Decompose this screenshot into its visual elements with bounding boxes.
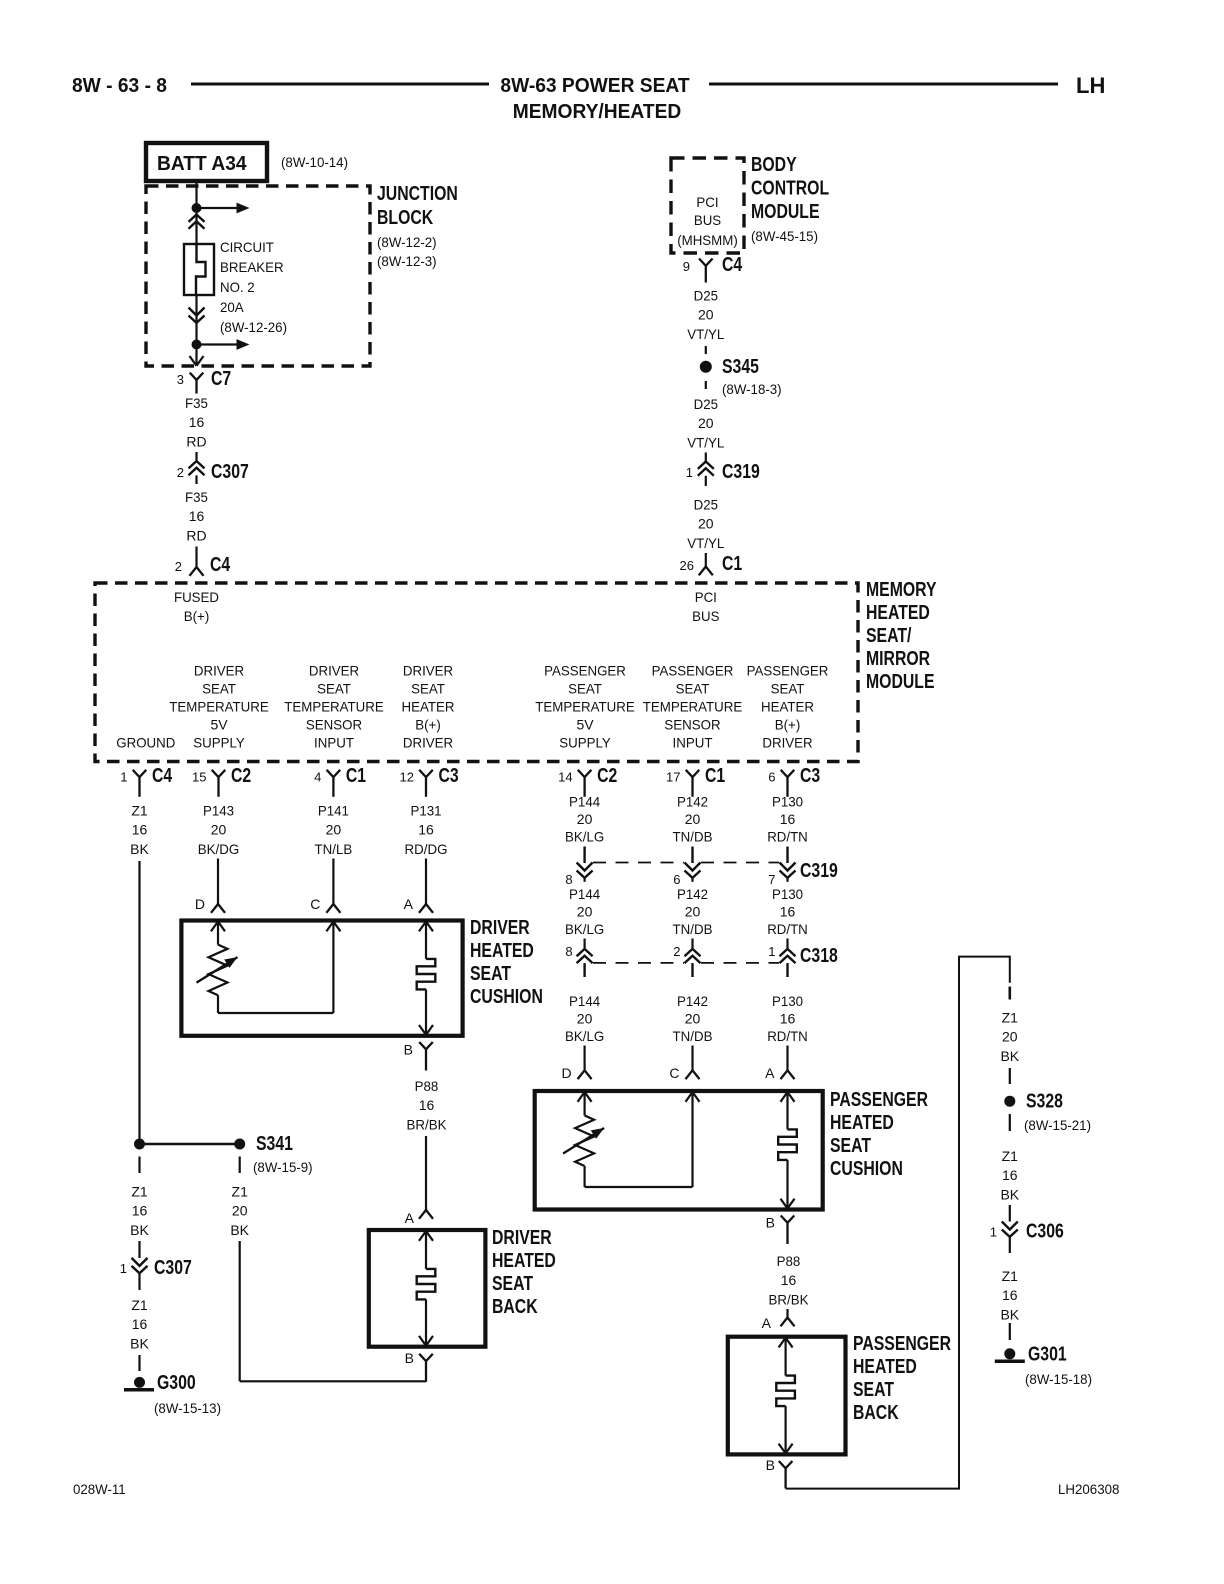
module pin DRIVER SEAT HEATER B(+) DRIVER label — [402, 663, 455, 751]
connector C319 pin 6 — [673, 847, 700, 888]
svg-text:C7: C7 — [211, 368, 231, 390]
svg-text:16: 16 — [132, 1203, 148, 1219]
svg-text:6: 6 — [768, 770, 775, 785]
svg-text:16: 16 — [1002, 1167, 1018, 1183]
svg-text:C1: C1 — [705, 765, 725, 787]
svg-text:B(+): B(+) — [775, 717, 801, 733]
svg-text:1: 1 — [768, 944, 775, 959]
C318 dashed tie line — [593, 962, 684, 964]
svg-text:LH206308: LH206308 — [1058, 1481, 1120, 1497]
svg-text:BREAKER: BREAKER — [220, 259, 284, 275]
module pin PASSENGER SEAT TEMPERATURE SENSOR INPUT label — [643, 663, 743, 751]
C319 dashed tie line — [593, 862, 684, 864]
svg-text:20: 20 — [698, 307, 714, 323]
svg-text:12: 12 — [400, 770, 414, 785]
svg-text:Z1: Z1 — [131, 803, 148, 819]
svg-text:16: 16 — [189, 508, 205, 524]
svg-text:C319: C319 — [800, 860, 838, 882]
svg-text:20: 20 — [211, 822, 227, 838]
svg-text:3: 3 — [177, 372, 184, 387]
svg-text:P130: P130 — [772, 886, 803, 902]
connector half bottom of breaker (double chevron) — [189, 308, 205, 316]
svg-text:C4: C4 — [722, 254, 743, 276]
svg-text:SENSOR: SENSOR — [664, 717, 720, 733]
connector C2 pin 15 — [192, 765, 251, 797]
circuit breaker no.2 symbol — [184, 244, 214, 295]
wire stub above C1 — [705, 553, 707, 567]
svg-text:16: 16 — [780, 1011, 796, 1027]
svg-text:MEMORY: MEMORY — [866, 579, 937, 601]
junction node with feed arrow top — [192, 203, 202, 213]
wire stub below S341 — [239, 1157, 241, 1174]
svg-text:MODULE: MODULE — [866, 671, 935, 693]
svg-text:SEAT: SEAT — [317, 681, 351, 697]
connector pin B below driver cushion — [404, 1042, 433, 1071]
svg-text:DRIVER: DRIVER — [470, 917, 530, 939]
connector C1 pin 4 — [314, 765, 366, 797]
pin A passenger heated seat cushion — [765, 1046, 794, 1082]
svg-text:RD: RD — [186, 433, 206, 449]
connector half top of breaker (double chevron) — [189, 215, 205, 222]
svg-text:DRIVER: DRIVER — [492, 1227, 552, 1249]
connector C3 pin 6 — [768, 765, 820, 797]
svg-text:C307: C307 — [211, 461, 249, 483]
svg-text:(8W-12-26): (8W-12-26) — [220, 319, 287, 335]
svg-text:HEATED: HEATED — [853, 1356, 917, 1378]
svg-text:16: 16 — [780, 811, 796, 827]
svg-text:20: 20 — [698, 516, 714, 532]
svg-text:PASSENGER: PASSENGER — [830, 1089, 928, 1111]
cushion thermistor sensor (passenger) — [563, 1092, 604, 1187]
cushion thermistor sensor (driver) — [197, 922, 238, 1014]
connector pin B below passenger cushion — [766, 1215, 795, 1245]
svg-text:MIRROR: MIRROR — [866, 648, 931, 670]
passenger heated seat cushion label — [830, 1089, 928, 1180]
svg-text:P142: P142 — [677, 993, 708, 1009]
exit arrowhead at junction block edge — [190, 356, 197, 366]
sensor return wire to pin C (passenger) — [585, 1092, 700, 1187]
svg-text:P144: P144 — [569, 794, 600, 810]
svg-text:GROUND: GROUND — [116, 735, 175, 751]
wire stub above G300 — [138, 1355, 140, 1371]
connector C306 pin 1 — [990, 1221, 1064, 1254]
connector C4 pin 9 of BCM — [683, 254, 743, 283]
wire stub above C307 — [195, 452, 197, 462]
svg-text:BACK: BACK — [853, 1402, 899, 1424]
svg-text:4: 4 — [314, 770, 321, 785]
svg-text:6: 6 — [673, 872, 680, 887]
pin C driver heated seat cushion — [310, 859, 340, 913]
svg-text:1: 1 — [120, 1261, 127, 1276]
wire stub below S328 — [1009, 1114, 1011, 1131]
svg-text:LH: LH — [1076, 73, 1105, 98]
svg-text:S341: S341 — [256, 1133, 293, 1155]
svg-text:BUS: BUS — [694, 212, 721, 228]
header rule right — [709, 83, 1058, 86]
svg-text:20: 20 — [577, 811, 593, 827]
svg-text:P144: P144 — [569, 886, 600, 902]
svg-text:SENSOR: SENSOR — [306, 717, 362, 733]
module pin PASSENGER SEAT HEATER B(+) DRIVER label — [747, 663, 829, 751]
driver heated seat back label — [492, 1227, 556, 1318]
passenger heated seat back box — [728, 1337, 846, 1455]
svg-text:C319: C319 — [722, 461, 760, 483]
svg-text:BK/LG: BK/LG — [565, 1028, 604, 1044]
svg-text:(8W-12-3): (8W-12-3) — [377, 253, 437, 269]
junction block dashed box — [146, 186, 370, 366]
svg-text:VT/YL: VT/YL — [687, 535, 724, 551]
battery feed BATT A34 box — [146, 143, 267, 181]
svg-text:SEAT: SEAT — [853, 1379, 894, 1401]
svg-text:PASSENGER: PASSENGER — [544, 663, 626, 679]
svg-text:5V: 5V — [576, 717, 594, 733]
svg-text:BK: BK — [1000, 1186, 1019, 1202]
wire stub above S328 — [1009, 1068, 1011, 1084]
svg-text:BUS: BUS — [692, 608, 719, 624]
svg-text:SUPPLY: SUPPLY — [559, 735, 611, 751]
svg-text:(8W-15-9): (8W-15-9) — [253, 1159, 313, 1175]
svg-text:HEATED: HEATED — [470, 940, 534, 962]
svg-text:DRIVER: DRIVER — [403, 735, 453, 751]
svg-text:P144: P144 — [569, 993, 600, 1009]
svg-text:26: 26 — [680, 558, 694, 573]
svg-text:C1: C1 — [346, 765, 366, 787]
svg-text:A: A — [762, 1315, 772, 1331]
connector C2 pin 14 — [558, 765, 617, 797]
wire breaker to junction block exit — [195, 295, 197, 364]
svg-text:8: 8 — [565, 944, 572, 959]
splice S341 — [234, 1133, 293, 1155]
pin D driver heated seat cushion — [195, 859, 225, 913]
sensor return wire to pin C (driver) — [218, 922, 340, 1014]
svg-text:BK: BK — [1000, 1306, 1019, 1322]
svg-text:C306: C306 — [1026, 1221, 1064, 1243]
svg-text:P142: P142 — [677, 886, 708, 902]
module name label — [866, 579, 937, 693]
wire Z1 20 BK label (right chain) — [1008, 987, 1011, 1000]
splice junction node on ground wire — [134, 1139, 145, 1150]
wire stub below S345 — [705, 381, 707, 389]
ground return wire seat back B to S341 branch — [240, 1241, 426, 1381]
svg-text:Z1: Z1 — [1002, 1010, 1019, 1026]
svg-text:(8W-45-15): (8W-45-15) — [751, 228, 818, 244]
wire stub above G301 — [1009, 1323, 1011, 1340]
svg-text:JUNCTION: JUNCTION — [377, 183, 458, 205]
svg-text:RD/TN: RD/TN — [767, 829, 808, 845]
wire stub to splice S345 — [705, 346, 707, 354]
connector C4 pin 2 into module — [175, 554, 231, 576]
svg-text:B(+): B(+) — [415, 717, 441, 733]
svg-text:INPUT: INPUT — [314, 735, 354, 751]
svg-text:P143: P143 — [203, 803, 234, 819]
svg-text:16: 16 — [418, 822, 434, 838]
driver heated seat cushion box — [181, 921, 462, 1036]
svg-text:G301: G301 — [1028, 1344, 1067, 1366]
svg-text:1: 1 — [990, 1225, 997, 1240]
svg-text:DRIVER: DRIVER — [762, 735, 812, 751]
connector C319 pin 7 — [768, 847, 795, 888]
svg-text:A: A — [404, 896, 414, 912]
svg-text:BLOCK: BLOCK — [377, 207, 434, 229]
svg-text:BK/LG: BK/LG — [565, 829, 604, 845]
svg-text:16: 16 — [132, 822, 148, 838]
module pin DRIVER SEAT TEMPERATURE 5V SUPPLY label — [169, 663, 269, 751]
svg-text:C307: C307 — [154, 1257, 192, 1279]
wire stub above C4 — [195, 547, 197, 568]
svg-text:BK: BK — [230, 1222, 249, 1238]
wire above C306 — [1009, 1205, 1011, 1222]
module pin PCI BUS label — [692, 589, 719, 624]
svg-text:F35: F35 — [185, 489, 208, 505]
svg-text:B: B — [405, 1350, 414, 1366]
svg-text:F35: F35 — [185, 395, 208, 411]
svg-text:MEMORY/HEATED: MEMORY/HEATED — [513, 101, 682, 123]
svg-text:14: 14 — [558, 770, 572, 785]
connector C307 pin 1 — [120, 1257, 192, 1290]
svg-text:P141: P141 — [318, 803, 349, 819]
svg-text:16: 16 — [189, 414, 205, 430]
svg-text:TN/DB: TN/DB — [673, 829, 713, 845]
svg-text:20: 20 — [1002, 1029, 1018, 1045]
svg-text:1: 1 — [686, 465, 693, 480]
header rule left — [191, 83, 489, 86]
svg-text:C4: C4 — [210, 554, 231, 576]
svg-text:Z1: Z1 — [131, 1297, 148, 1313]
svg-text:BACK: BACK — [492, 1296, 538, 1318]
svg-text:A: A — [765, 1065, 775, 1081]
svg-text:2: 2 — [177, 465, 184, 480]
svg-text:TEMPERATURE: TEMPERATURE — [284, 699, 384, 715]
junction node with feed arrow bottom — [192, 340, 202, 350]
wire stub above C319 — [705, 453, 707, 463]
svg-text:HEATED: HEATED — [492, 1250, 556, 1272]
splice tie wire to S341 — [140, 1143, 240, 1146]
svg-text:A: A — [405, 1210, 415, 1226]
svg-text:(8W-15-18): (8W-15-18) — [1025, 1371, 1092, 1387]
svg-text:(8W-12-2): (8W-12-2) — [377, 234, 437, 250]
svg-text:(8W-15-13): (8W-15-13) — [154, 1400, 221, 1416]
svg-text:C: C — [310, 896, 320, 912]
svg-text:Z1: Z1 — [1002, 1148, 1019, 1164]
svg-text:2: 2 — [175, 559, 182, 574]
svg-text:15: 15 — [192, 770, 206, 785]
svg-text:TN/LB: TN/LB — [315, 841, 353, 857]
svg-text:16: 16 — [781, 1272, 797, 1288]
connector pin A driver seat back — [405, 1210, 433, 1226]
svg-text:HEATER: HEATER — [761, 699, 814, 715]
svg-text:NO. 2: NO. 2 — [220, 279, 255, 295]
svg-text:2: 2 — [673, 944, 680, 959]
svg-text:S328: S328 — [1026, 1091, 1063, 1113]
splice S328 — [1004, 1091, 1063, 1113]
seat back heater element (passenger) — [776, 1338, 795, 1454]
svg-text:C318: C318 — [800, 945, 838, 967]
driver heated seat back box — [369, 1230, 486, 1347]
svg-text:TEMPERATURE: TEMPERATURE — [535, 699, 635, 715]
ground wire from module C4 down to splice — [138, 861, 140, 1144]
svg-text:D: D — [195, 896, 205, 912]
svg-text:PCI: PCI — [695, 589, 717, 605]
svg-text:MODULE: MODULE — [751, 201, 820, 223]
connector pin B below passenger seat back — [766, 1457, 793, 1489]
memory heated seat/mirror module dashed box — [95, 583, 858, 762]
svg-text:20: 20 — [577, 1011, 593, 1027]
svg-text:C2: C2 — [597, 765, 617, 787]
svg-text:P130: P130 — [772, 993, 803, 1009]
svg-text:16: 16 — [419, 1097, 435, 1113]
svg-text:16: 16 — [132, 1316, 148, 1332]
svg-text:BR/BK: BR/BK — [769, 1291, 810, 1307]
svg-text:RD: RD — [186, 527, 206, 543]
svg-text:16: 16 — [1002, 1287, 1018, 1303]
svg-text:8: 8 — [565, 872, 572, 887]
svg-text:SEAT: SEAT — [676, 681, 710, 697]
pin C passenger heated seat cushion — [669, 1046, 699, 1082]
svg-text:SEAT: SEAT — [830, 1135, 871, 1157]
svg-text:BATT A34: BATT A34 — [157, 153, 247, 175]
svg-text:20: 20 — [698, 415, 714, 431]
wire cushion B to seat back A (driver) — [425, 1136, 427, 1210]
svg-text:VT/YL: VT/YL — [687, 326, 724, 342]
svg-text:(8W-15-21): (8W-15-21) — [1024, 1117, 1091, 1133]
svg-text:1: 1 — [120, 770, 127, 785]
svg-text:BK: BK — [130, 1222, 149, 1238]
module pin PASSENGER SEAT TEMPERATURE 5V SUPPLY label — [535, 663, 635, 751]
svg-text:SEAT: SEAT — [771, 681, 805, 697]
svg-text:SEAT/: SEAT/ — [866, 625, 912, 647]
svg-text:P131: P131 — [410, 803, 441, 819]
svg-text:20A: 20A — [220, 299, 244, 315]
svg-text:B(+): B(+) — [184, 608, 210, 624]
svg-text:CONTROL: CONTROL — [751, 178, 829, 200]
svg-text:B: B — [766, 1457, 775, 1473]
svg-text:BR/BK: BR/BK — [407, 1116, 448, 1132]
svg-text:SEAT: SEAT — [411, 681, 445, 697]
svg-text:D25: D25 — [694, 288, 719, 304]
svg-text:CUSHION: CUSHION — [470, 986, 543, 1008]
svg-text:RD/TN: RD/TN — [767, 1028, 808, 1044]
connector C319 pin 8 — [565, 847, 592, 888]
passenger heated seat cushion box — [535, 1091, 823, 1210]
svg-text:HEATED: HEATED — [866, 602, 930, 624]
svg-text:16: 16 — [780, 904, 796, 920]
junction block label — [377, 183, 458, 269]
svg-text:HEATER: HEATER — [402, 699, 455, 715]
svg-text:20: 20 — [685, 904, 701, 920]
svg-text:RD/TN: RD/TN — [767, 921, 808, 937]
svg-text:SEAT: SEAT — [568, 681, 602, 697]
svg-text:028W-11: 028W-11 — [73, 1481, 126, 1497]
svg-text:TEMPERATURE: TEMPERATURE — [643, 699, 743, 715]
connector C318 pin 1 — [768, 939, 795, 978]
svg-text:DRIVER: DRIVER — [194, 663, 244, 679]
svg-text:BK: BK — [1000, 1048, 1019, 1064]
svg-text:7: 7 — [768, 872, 775, 887]
connector C319 pin 1 — [686, 461, 760, 486]
svg-text:S345: S345 — [722, 356, 759, 378]
svg-text:BK: BK — [130, 841, 149, 857]
svg-text:DRIVER: DRIVER — [403, 663, 453, 679]
svg-text:(8W-18-3): (8W-18-3) — [722, 381, 782, 397]
svg-text:17: 17 — [666, 770, 680, 785]
svg-text:(8W-10-14): (8W-10-14) — [281, 154, 348, 170]
svg-text:20: 20 — [685, 811, 701, 827]
svg-text:C1: C1 — [722, 553, 742, 575]
body control module label — [751, 154, 829, 244]
pin A driver heated seat cushion — [404, 859, 433, 913]
ground G300 — [124, 1372, 196, 1394]
svg-text:Z1: Z1 — [1002, 1268, 1019, 1284]
connector C1 pin 26 into module — [680, 553, 743, 575]
splice S345 — [700, 356, 759, 378]
svg-text:C: C — [669, 1065, 679, 1081]
svg-text:DRIVER: DRIVER — [309, 663, 359, 679]
svg-text:SUPPLY: SUPPLY — [193, 735, 245, 751]
svg-text:P130: P130 — [772, 794, 803, 810]
svg-text:8W-63 POWER SEAT: 8W-63 POWER SEAT — [500, 75, 689, 97]
svg-text:PASSENGER: PASSENGER — [747, 663, 829, 679]
connector C7 pin 3 — [177, 368, 231, 394]
svg-text:PCI: PCI — [696, 194, 718, 210]
connector C318 pin 2 — [673, 939, 700, 978]
svg-text:Z1: Z1 — [131, 1184, 148, 1200]
svg-text:5V: 5V — [210, 717, 228, 733]
connector C307 pin 2 — [177, 461, 249, 484]
svg-text:TN/DB: TN/DB — [673, 921, 713, 937]
svg-text:RD/DG: RD/DG — [405, 841, 448, 857]
cushion heater element (passenger) — [778, 1092, 797, 1209]
svg-text:D: D — [561, 1065, 571, 1081]
circuit breaker label — [220, 239, 287, 335]
connector C1 pin 17 — [666, 765, 725, 797]
pin D passenger heated seat cushion — [561, 1046, 591, 1082]
cushion heater element (driver) — [417, 922, 436, 1036]
svg-text:8W - 63 - 8: 8W - 63 - 8 — [72, 75, 167, 97]
connector C318 pin 8 — [565, 939, 592, 978]
module pin FUSED B(+) label — [174, 589, 219, 624]
svg-text:D25: D25 — [694, 396, 719, 412]
ground G301 — [995, 1344, 1067, 1366]
connector pin B below driver seat back — [405, 1350, 433, 1382]
wire stub below ground junction — [138, 1157, 140, 1174]
svg-text:INPUT: INPUT — [673, 735, 713, 751]
svg-text:B: B — [404, 1042, 413, 1058]
svg-text:C3: C3 — [439, 765, 459, 787]
connector C3 pin 12 — [400, 765, 459, 797]
svg-text:BODY: BODY — [751, 154, 797, 176]
svg-text:Z1: Z1 — [232, 1184, 249, 1200]
wire above C307 bottom — [138, 1241, 140, 1258]
body control module dashed box — [671, 158, 744, 253]
svg-text:P88: P88 — [777, 1253, 801, 1269]
svg-text:BK: BK — [130, 1335, 149, 1351]
svg-text:P142: P142 — [677, 794, 708, 810]
svg-text:TN/DB: TN/DB — [673, 1028, 713, 1044]
svg-text:C4: C4 — [152, 765, 173, 787]
svg-text:CIRCUIT: CIRCUIT — [220, 239, 274, 255]
svg-text:SEAT: SEAT — [492, 1273, 533, 1295]
svg-text:BK/LG: BK/LG — [565, 921, 604, 937]
svg-text:20: 20 — [326, 822, 342, 838]
svg-text:20: 20 — [685, 1011, 701, 1027]
svg-text:(MHSMM): (MHSMM) — [677, 232, 738, 248]
svg-text:B: B — [766, 1215, 775, 1231]
svg-text:HEATED: HEATED — [830, 1112, 894, 1134]
PCI BUS (MHSMM) label — [677, 194, 738, 248]
wire cushion B to seat back A (passenger) — [786, 1309, 788, 1318]
svg-text:P88: P88 — [415, 1078, 439, 1094]
svg-text:SEAT: SEAT — [470, 963, 511, 985]
